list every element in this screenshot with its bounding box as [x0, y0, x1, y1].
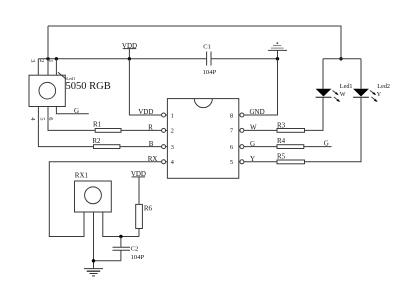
- pin number 2 (rotated): [38, 59, 45, 62]
- junction gnd: [92, 259, 95, 262]
- svg-text:VDD: VDD: [138, 108, 153, 116]
- wire R1 to IC pin2: [121, 129, 162, 131]
- pin number 3: [171, 144, 174, 151]
- label 104P (C2): [131, 254, 145, 261]
- pin number 4: [171, 159, 175, 166]
- label R2: [92, 137, 101, 145]
- label R (pin2 net): [148, 124, 153, 132]
- pin number 1 (rotated): [47, 59, 54, 62]
- junction VDD rail: [128, 57, 131, 60]
- wire IC pin7 to R3: [244, 129, 277, 131]
- pin number 1: [171, 112, 174, 119]
- wire GND node down to IC pin8: [244, 59, 278, 115]
- svg-text:1: 1: [47, 59, 54, 62]
- svg-text:3: 3: [171, 144, 174, 151]
- pin number 4 (rotated): [29, 117, 36, 121]
- earth ground top right: [268, 42, 287, 58]
- svg-text:Led2: Led2: [377, 83, 390, 90]
- pin number 6: [230, 144, 234, 151]
- wire RX1 gnd pin: [93, 212, 95, 269]
- label 5050 RGB: [66, 81, 111, 92]
- wire IC pin5 to R5: [244, 161, 277, 163]
- label 104P (C1): [203, 69, 217, 76]
- capacitor C2: [113, 237, 131, 261]
- svg-text:R5: R5: [277, 153, 286, 161]
- pin 8 circle: [239, 113, 244, 117]
- pin number 6 (rotated): [47, 117, 54, 120]
- label R6: [144, 205, 153, 213]
- label G (pin6 net): [250, 140, 255, 148]
- svg-text:R4: R4: [277, 137, 286, 145]
- label R1: [93, 121, 102, 129]
- label R4: [277, 137, 286, 145]
- wire RX1 vcc pin: [103, 212, 139, 237]
- wire IC pin4 RX loop: [49, 162, 161, 237]
- pin number 5 (rotated): [38, 117, 45, 120]
- resistor R4: [277, 145, 304, 149]
- wire Led1 anode: [322, 59, 324, 89]
- wire LED top bar: [323, 58, 361, 60]
- wire VDD to IC pin1: [129, 59, 161, 115]
- svg-text:G: G: [74, 107, 79, 115]
- svg-text:6: 6: [230, 144, 234, 151]
- svg-text:W: W: [340, 91, 346, 98]
- wire RGB pin3 to VDD rail: [37, 59, 39, 75]
- power flag VDD top: [123, 49, 136, 59]
- label Led2: [377, 83, 390, 90]
- net label G (RGB green): [74, 107, 79, 115]
- label R5: [277, 153, 286, 161]
- wire RGB pin5 to R1: [48, 107, 95, 131]
- svg-text:Led1: Led1: [340, 83, 353, 90]
- wire C2 bottom to gnd: [94, 260, 121, 262]
- wire R4 to net G: [304, 146, 332, 148]
- label VDD bottom: [131, 170, 146, 178]
- wire C1 right to GND node: [211, 58, 278, 60]
- IR receiver RX1: [75, 181, 112, 212]
- svg-text:RX1: RX1: [75, 172, 89, 180]
- wire IC pin6 to R4: [244, 146, 277, 148]
- svg-text:R3: R3: [277, 121, 286, 129]
- svg-text:5: 5: [38, 117, 45, 120]
- svg-text:R2: R2: [92, 137, 101, 145]
- LED Led2: [353, 89, 378, 102]
- label Led1: [340, 83, 353, 90]
- wire R6 bottom: [138, 229, 140, 237]
- svg-text:4: 4: [171, 159, 175, 166]
- svg-text:2: 2: [38, 59, 45, 62]
- wire top rail: [48, 26, 341, 59]
- svg-text:104P: 104P: [131, 254, 145, 261]
- power flag VDD bottom: [132, 177, 146, 205]
- wire VDD rail: [38, 58, 206, 60]
- junction GND rail: [276, 57, 279, 60]
- label Y (pin5 net): [250, 155, 255, 163]
- svg-text:5050 RGB: 5050 RGB: [66, 81, 111, 92]
- label R3: [277, 121, 286, 129]
- svg-text:1: 1: [171, 112, 174, 119]
- pin 4 circle: [162, 160, 168, 164]
- LED D1 5050 RGB package: [29, 72, 66, 106]
- label W (pin7 net): [250, 124, 257, 132]
- ground bottom: [84, 269, 103, 276]
- svg-text:R6: R6: [144, 205, 153, 213]
- svg-text:G: G: [324, 139, 329, 147]
- label Y (Led2 colour): [377, 91, 382, 98]
- label B (pin3 net): [149, 140, 154, 148]
- junction LED feed: [339, 57, 342, 60]
- pin number 2: [171, 128, 174, 135]
- label VDD top: [122, 42, 137, 50]
- label Led1 (small, at 5050 package): [66, 76, 75, 81]
- pin number 5: [230, 159, 233, 166]
- resistor R1: [95, 129, 121, 133]
- capacitor C1: [207, 52, 211, 66]
- wire RGB pin1 to VDD rail: [55, 59, 57, 75]
- label RX (pin4 net): [148, 155, 158, 163]
- svg-text:7: 7: [230, 128, 234, 135]
- pin 2 circle: [162, 128, 168, 132]
- LED Led1: [316, 89, 341, 102]
- svg-text:R1: R1: [93, 121, 102, 129]
- wire RGB pin2 (from top rail): [47, 26, 49, 75]
- pin 1 circle: [162, 113, 168, 117]
- svg-text:C2: C2: [131, 245, 139, 252]
- junction at RGB pin1: [55, 57, 58, 60]
- svg-text:VDD: VDD: [122, 42, 137, 50]
- label RX1: [75, 172, 89, 180]
- svg-text:GND: GND: [250, 108, 265, 116]
- svg-text:104P: 104P: [203, 69, 217, 76]
- resistor R3: [277, 129, 305, 133]
- pin 6 circle: [239, 145, 244, 149]
- pin 3 circle: [162, 145, 168, 149]
- svg-text:5: 5: [230, 159, 233, 166]
- pin 5 circle: [239, 160, 244, 164]
- svg-text:Y: Y: [377, 91, 382, 98]
- wire RGB pin4 to R2: [38, 107, 93, 147]
- label GND (pin8 net): [250, 108, 265, 116]
- label VDD (pin1 net): [138, 108, 153, 116]
- IC U1: [167, 99, 238, 179]
- pin 7 circle: [239, 128, 244, 132]
- resistor R5: [277, 160, 305, 164]
- label C2: [131, 245, 139, 252]
- pin number 7: [230, 128, 234, 135]
- wire Led2 cathode to R5: [305, 97, 362, 162]
- junction C2 top: [119, 235, 122, 238]
- junction at RGB pin2: [46, 57, 49, 60]
- svg-text:4: 4: [29, 117, 36, 121]
- svg-text:3: 3: [29, 59, 36, 62]
- wire Led2 anode: [360, 59, 362, 89]
- label W (Led1 colour): [340, 91, 346, 98]
- svg-text:C1: C1: [203, 44, 211, 51]
- svg-text:VDD: VDD: [131, 170, 146, 178]
- wire RGB G pin stub: [56, 107, 88, 114]
- resistor R2: [94, 145, 120, 149]
- wire Led1 cathode to R3: [305, 97, 324, 130]
- wire R2 to IC pin3: [120, 146, 162, 148]
- resistor R6: [136, 204, 143, 228]
- label C1: [203, 44, 211, 51]
- pin number 3 (rotated): [29, 59, 36, 62]
- pin number 8: [230, 112, 233, 119]
- svg-text:8: 8: [230, 112, 233, 119]
- net label G (right): [324, 139, 329, 147]
- svg-text:2: 2: [171, 128, 174, 135]
